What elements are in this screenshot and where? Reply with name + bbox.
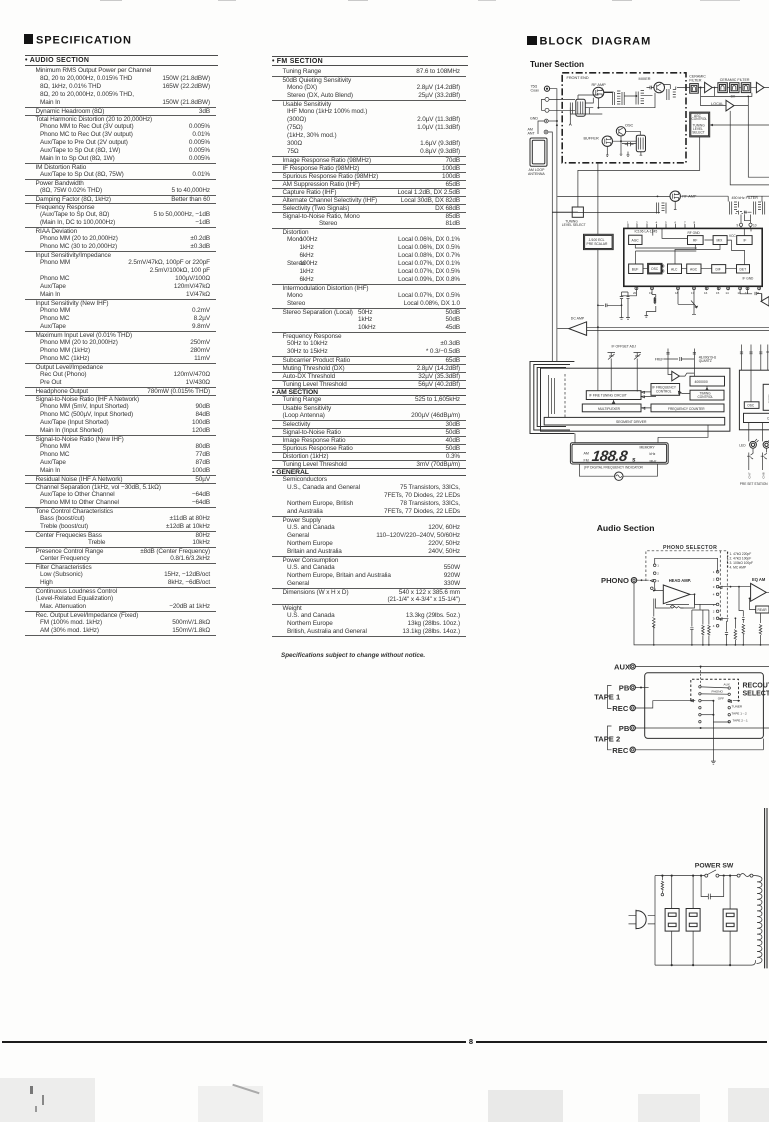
head amp output to contact1 lower wire xyxy=(699,604,701,609)
TAPE1 PB jack J3 xyxy=(619,683,649,692)
svg-text:IF GND: IF GND xyxy=(743,277,754,281)
svg-text:RF: RF xyxy=(693,239,697,243)
svg-text:MULTIPLEXER: MULTIPLEXER xyxy=(598,407,621,411)
svg-text:FILTER: FILTER xyxy=(689,78,702,82)
AM ANT terminal T5 xyxy=(528,128,548,136)
svg-text:3: 3 xyxy=(646,220,648,224)
svg-text:CERAMIC FILTER: CERAMIC FILTER xyxy=(720,78,750,82)
svg-text:AGC: AGC xyxy=(632,239,640,243)
scan artifacts top edge xyxy=(100,0,122,1)
selector output contacts lower xyxy=(713,603,719,628)
middle spec column xyxy=(272,68,466,637)
svg-text:IF: IF xyxy=(744,239,747,243)
prescaler box xyxy=(584,234,614,249)
oscillator coil L1 xyxy=(645,290,656,317)
ref amp triangle A5 xyxy=(668,368,694,381)
svg-text:FM: FM xyxy=(584,458,589,462)
svg-text:7: 7 xyxy=(684,220,686,224)
svg-text:2. 47kΩ 100pF: 2. 47kΩ 100pF xyxy=(730,557,752,561)
svg-text:TUNER: TUNER xyxy=(732,705,743,709)
svg-text:1: 1 xyxy=(713,603,715,607)
IC MIX box xyxy=(713,234,736,244)
svg-text:OSC: OSC xyxy=(625,124,633,128)
selector link wire top xyxy=(655,558,718,572)
wire GND to bus xyxy=(548,120,557,122)
transformer secondary coil W4 xyxy=(756,876,763,964)
AC source symbol xyxy=(579,464,657,480)
svg-text:188.8: 188.8 xyxy=(591,448,629,465)
IF signal wires filters xyxy=(677,87,769,89)
AM RF amp FET Q5 xyxy=(670,191,697,201)
svg-text:REAR: REAR xyxy=(758,608,768,612)
counter unit nested outer rects xyxy=(530,362,574,434)
DC AMP triangle A4 xyxy=(569,317,587,336)
FREF input xyxy=(655,349,717,377)
IF amp triangle A2 xyxy=(756,82,764,92)
wire AM ANT down bus xyxy=(538,121,552,362)
transformer primary winding W3 xyxy=(723,876,737,967)
svg-text:LOCAL: LOCAL xyxy=(711,102,723,106)
TAPE2 PB jack J5 xyxy=(619,724,769,733)
preset memory tall box xyxy=(763,384,769,410)
interstage tuned transformer xyxy=(613,91,625,105)
svg-text:ALC: ALC xyxy=(671,267,678,271)
pin 18/17 wires down xyxy=(678,290,694,304)
recout common vertical to ground xyxy=(711,700,729,765)
fuse F1 xyxy=(737,874,753,878)
routing box xyxy=(645,673,764,739)
bottom page rule xyxy=(2,1041,767,1043)
page header: SPECIFICATION xyxy=(24,34,132,47)
display caption xyxy=(584,466,644,470)
preset unit inputs xyxy=(740,345,769,371)
svg-text:FREQUENCY COUNTER: FREQUENCY COUNTER xyxy=(668,407,705,411)
svg-text:2: 2 xyxy=(713,578,715,582)
svg-text:VCC: VCC xyxy=(729,234,736,238)
svg-text:OSC: OSC xyxy=(651,267,659,271)
svg-text:kHz: kHz xyxy=(650,452,656,456)
REAR box xyxy=(749,598,769,614)
svg-text:RF GND: RF GND xyxy=(688,231,701,235)
antenna terminal T3 xyxy=(545,108,549,112)
IF amp triangle A1 xyxy=(705,82,713,92)
left spec column header xyxy=(25,55,218,66)
svg-text:IF OFFSET ADJ: IF OFFSET ADJ xyxy=(612,345,637,349)
bracket joining T2/T3 xyxy=(542,99,546,110)
svg-text:4: 4 xyxy=(713,624,715,628)
selector notes xyxy=(728,552,753,570)
svg-text:3: 3 xyxy=(713,585,715,589)
selector input contacts xyxy=(651,564,660,592)
TAPE2 label and bracket xyxy=(594,726,620,750)
7-seg digits 188.8 xyxy=(591,448,629,465)
EQ AMP triangle A7 xyxy=(748,577,769,601)
svg-text:MIXER: MIXER xyxy=(639,77,651,81)
AGC input wire from right xyxy=(710,124,769,126)
svg-text:14: 14 xyxy=(725,291,729,295)
second tuned circuit xyxy=(636,91,644,105)
POWER SW label xyxy=(695,863,734,870)
svg-text:4. MC AMP: 4. MC AMP xyxy=(730,566,747,570)
transformer primary winding W2 xyxy=(686,876,700,967)
Audio Section title xyxy=(597,523,655,533)
DX bypass path xyxy=(701,87,752,104)
head amp feedback resistor R1 xyxy=(656,593,696,608)
prescaler wires xyxy=(552,212,598,391)
svg-text:EQ AM: EQ AM xyxy=(752,577,766,582)
IC IF box xyxy=(737,236,752,245)
block diagram svg xyxy=(520,68,769,1005)
PHONO jack J1 xyxy=(601,576,637,585)
svg-text:3: 3 xyxy=(657,579,659,583)
preset switch transistors xyxy=(747,453,767,463)
svg-text:CONTROL: CONTROL xyxy=(656,389,672,393)
LED indicators xyxy=(739,423,769,453)
svg-text:SELECT: SELECT xyxy=(692,130,704,134)
bus caps near prescaler xyxy=(597,304,622,308)
svg-text:PB: PB xyxy=(619,683,630,692)
Tuner Section title xyxy=(530,60,584,69)
det output caps right xyxy=(740,290,762,295)
ceramic filter CF4 xyxy=(720,78,751,98)
svg-text:CH7: CH7 xyxy=(748,472,752,478)
svg-text:2: 2 xyxy=(636,220,638,224)
svg-text:AUX: AUX xyxy=(614,662,630,671)
svg-text:GND: GND xyxy=(530,116,538,120)
phono wiper arrow xyxy=(637,579,654,582)
svg-text:2: 2 xyxy=(713,610,715,614)
svg-text:3. 100kΩ 100pF: 3. 100kΩ 100pF xyxy=(730,561,754,565)
RF AMP FET Q1 xyxy=(592,83,607,98)
lower wiper arrow xyxy=(666,594,729,620)
AM signal wire from bus xyxy=(557,196,728,198)
TAPE1 REC jack J4 xyxy=(612,700,695,714)
IC ALC box xyxy=(668,264,682,274)
right edge amp triangle xyxy=(761,294,769,307)
second AM wire xyxy=(552,201,676,212)
svg-text:OSC: OSC xyxy=(747,404,755,408)
svg-text:4: 4 xyxy=(656,220,658,224)
IC BUF box xyxy=(629,264,643,274)
svg-text:LED: LED xyxy=(739,443,746,447)
svg-text:SELECT: SELECT xyxy=(743,691,769,698)
front end dashed box xyxy=(562,73,686,163)
svg-text:FREF: FREF xyxy=(655,357,664,361)
AC plug P1 xyxy=(629,910,656,930)
segment driver output wire xyxy=(575,425,708,443)
svg-text:PB: PB xyxy=(619,724,630,733)
osc caps to ground xyxy=(625,142,634,156)
IC internal wires xyxy=(635,228,751,272)
svg-text:CONTROL: CONTROL xyxy=(698,395,714,399)
svg-text:16: 16 xyxy=(704,291,708,295)
svg-text:5: 5 xyxy=(665,220,667,224)
svg-text:QUARTZ: QUARTZ xyxy=(699,359,712,363)
svg-text:12: 12 xyxy=(745,291,749,295)
middle spec column header xyxy=(272,56,468,67)
display bezel xyxy=(570,443,668,464)
counter unit main box xyxy=(541,368,730,431)
450 kHz filter T450 xyxy=(728,196,769,215)
AGC CONTROL / tuning level select box xyxy=(690,112,710,137)
wire T3 into front end xyxy=(549,109,575,111)
TAPE1 label and bracket xyxy=(594,686,621,709)
svg-text:s: s xyxy=(632,457,636,464)
svg-text:CONTROL: CONTROL xyxy=(692,117,708,121)
mixer transistor Q2 xyxy=(639,77,665,93)
svg-text:HEAD AMP.: HEAD AMP. xyxy=(669,578,691,583)
svg-text:POWER SW: POWER SW xyxy=(695,863,734,870)
IC AGC box top xyxy=(629,235,642,244)
preset OSC box xyxy=(744,402,759,409)
selector output contacts upper xyxy=(713,570,719,597)
TAPE2 REC jack J6 xyxy=(612,739,763,755)
upper wiper to EQ amp xyxy=(719,586,748,589)
recout selector contacts xyxy=(699,682,748,723)
svg-text:9: 9 xyxy=(737,223,739,227)
svg-text:CH8: CH8 xyxy=(762,472,766,478)
svg-text:DET: DET xyxy=(740,267,747,271)
antenna terminal T2 xyxy=(545,97,549,101)
svg-text:REC: REC xyxy=(612,746,629,755)
preset controller wide box xyxy=(744,370,769,422)
scan artifacts bottom xyxy=(0,1078,95,1122)
buffer FET Q4 xyxy=(584,136,613,146)
svg-text:1: 1 xyxy=(657,564,659,568)
FREQUENCY COUNTER box xyxy=(642,404,724,412)
IF FINE TUNING CIRCUIT box xyxy=(586,391,656,400)
recout selector dashed box xyxy=(691,679,769,701)
left supply rail xyxy=(654,876,656,966)
power switch S1 xyxy=(705,870,719,877)
svg-text:MIX: MIX xyxy=(717,239,724,243)
svg-text:IC106 LA-1245: IC106 LA-1245 xyxy=(635,230,658,234)
left spec column xyxy=(25,67,216,636)
svg-text:1: 1 xyxy=(713,570,715,574)
svg-text:8: 8 xyxy=(694,220,696,224)
below-IC decoupling caps C1 C2 xyxy=(620,290,637,319)
svg-text:RF AMP: RF AMP xyxy=(592,83,607,87)
svg-text:PHONO SELECTOR: PHONO SELECTOR xyxy=(663,545,717,551)
audio ground rail xyxy=(634,583,769,646)
MULTIPLEXER box xyxy=(582,400,641,412)
ceramic filter CF2 xyxy=(718,83,727,93)
svg-text:BUF: BUF xyxy=(632,267,639,271)
AM loop antenna xyxy=(528,138,547,176)
svg-text:RECOUT: RECOUT xyxy=(743,683,769,690)
switch bypass capacitor C3 xyxy=(701,876,724,900)
AUX jack J2 xyxy=(614,662,769,671)
AM input tuned circuit xyxy=(657,203,667,214)
svg-text:IF FINE TUNING CIRCUIT: IF FINE TUNING CIRCUIT xyxy=(589,394,627,398)
AC line top rail xyxy=(655,875,756,877)
LOCAL amp triangle A3 xyxy=(711,100,734,111)
IC top pins xyxy=(627,220,696,228)
svg-text:BUFFER: BUFFER xyxy=(584,137,599,141)
SEGMENT DRIVER box xyxy=(544,417,725,425)
TUNING LEVEL SELECT box xyxy=(562,207,586,227)
head amp input wire xyxy=(655,582,664,591)
svg-text:MHz: MHz xyxy=(650,459,657,463)
svg-text:Coax: Coax xyxy=(531,88,540,92)
dc amp wires and long IF lines xyxy=(557,326,769,330)
surge resistor R3 xyxy=(661,876,664,896)
svg-text:AGC: AGC xyxy=(690,267,698,271)
bottom RC network caps and resistors xyxy=(690,587,762,645)
svg-text:4000000: 4000000 xyxy=(695,380,708,384)
IC OSC box xyxy=(648,263,662,274)
svg-text:PHONO: PHONO xyxy=(712,690,724,694)
svg-text:450 kHz FILTER: 450 kHz FILTER xyxy=(732,196,759,200)
svg-text:15: 15 xyxy=(716,291,720,295)
IF FREQUENCY CONTROL box xyxy=(651,384,680,396)
IC AGC box bottom xyxy=(687,264,701,274)
filter output pins 9 10 xyxy=(737,214,757,228)
tuning capacitor (antenna) xyxy=(570,99,585,116)
transformer primary winding W1 xyxy=(665,876,679,967)
phono selector dashed box xyxy=(646,545,727,622)
svg-text:PRE SCALAR: PRE SCALAR xyxy=(587,242,609,246)
wire T1 to front end / down bus xyxy=(550,89,558,361)
svg-text:TAPE 1→2: TAPE 1→2 xyxy=(732,712,748,716)
svg-text:PRE SET STATION: PRE SET STATION xyxy=(740,482,769,486)
oscillator transistor Q3 xyxy=(616,124,633,137)
preset station box xyxy=(739,370,769,430)
4000000 box xyxy=(690,376,725,386)
IC DET box xyxy=(737,265,754,281)
input load resistor R2 xyxy=(653,590,656,645)
svg-text:AM: AM xyxy=(584,452,589,456)
wire front end to prescaler line xyxy=(597,164,599,235)
svg-text:10: 10 xyxy=(753,223,757,227)
svg-text:13: 13 xyxy=(737,291,741,295)
svg-text:SEGMENT DRIVER: SEGMENT DRIVER xyxy=(616,420,647,424)
svg-text:PHONO: PHONO xyxy=(601,576,629,585)
svg-text:2: 2 xyxy=(657,572,659,576)
svg-text:OFF: OFF xyxy=(718,696,724,700)
transformer core lines page edge xyxy=(765,808,767,968)
oscillator tuned circuit xyxy=(636,135,645,152)
svg-text:DIF: DIF xyxy=(716,267,721,271)
svg-text:TAPE 2→1: TAPE 2→1 xyxy=(733,718,749,722)
mixer output IFT coil xyxy=(664,85,676,101)
coupling caps before mixer xyxy=(647,86,654,90)
svg-text:REC: REC xyxy=(612,704,629,713)
TIMING CONTROL box xyxy=(678,386,724,400)
svg-text:1. 47kΩ 220pF: 1. 47kΩ 220pF xyxy=(730,552,752,556)
preset channel labels xyxy=(740,462,769,486)
recout wiper arrow right xyxy=(701,667,740,703)
svg-text:FRONT END: FRONT END xyxy=(567,76,589,80)
local path wires xyxy=(701,88,769,185)
ceramic filter CF1 xyxy=(689,75,706,94)
front end internal wires xyxy=(569,92,655,156)
page header: BLOCK DIAGRAM xyxy=(527,35,651,48)
75 ohm coax terminal T1 xyxy=(531,85,550,93)
ceramic filter CF3 xyxy=(730,83,739,93)
svg-text:MEMORY: MEMORY xyxy=(640,445,656,449)
IF OFFSET ADJ trimmers xyxy=(608,345,642,392)
IC bottom pins xyxy=(633,286,761,295)
footnote xyxy=(281,652,425,659)
svg-text:AUX: AUX xyxy=(724,682,730,686)
svg-text:1: 1 xyxy=(627,220,629,224)
IC RF box xyxy=(688,231,704,244)
svg-text:ANTENNA: ANTENNA xyxy=(528,172,545,176)
wire T2 into front end xyxy=(549,98,575,100)
svg-text:6: 6 xyxy=(675,220,677,224)
svg-text:3: 3 xyxy=(713,617,715,621)
bottom supply rail xyxy=(655,960,756,965)
IC106 LA-1245 block xyxy=(624,228,762,286)
HEAD AMP triangle A6 xyxy=(663,578,691,604)
svg-text:4: 4 xyxy=(713,593,715,597)
variable resistor below pin 16 xyxy=(691,290,698,314)
svg-text:ANT: ANT xyxy=(528,131,536,135)
svg-text:LEVEL SELECT: LEVEL SELECT xyxy=(562,223,586,227)
svg-text:DC AMP: DC AMP xyxy=(571,317,585,321)
svg-text:(FP DIGITAL FREQUENCY INDICATO: (FP DIGITAL FREQUENCY INDICATOR xyxy=(584,466,644,470)
AGC box to tuning level select wire xyxy=(578,137,700,207)
GND terminal T4 xyxy=(530,116,548,123)
IC DIF box xyxy=(712,265,726,273)
